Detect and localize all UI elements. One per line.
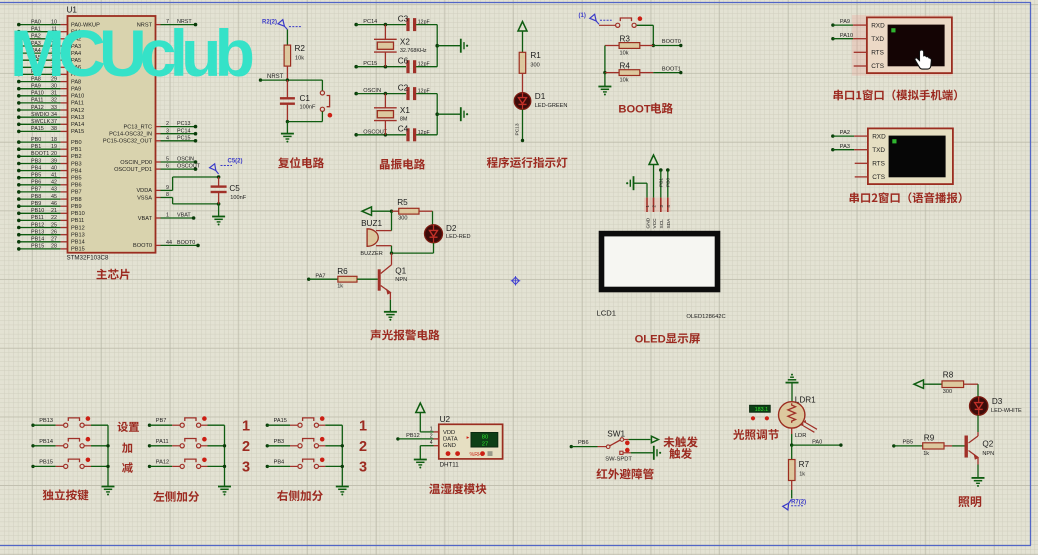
ground rail (右侧加分): [336, 425, 349, 495]
svg-text:BUZ1: BUZ1: [361, 219, 382, 228]
chip pin PB11 (22): [17, 215, 84, 224]
resistor R5: [392, 198, 433, 222]
VT1 pin TXD from PA10: [831, 33, 867, 41]
ground right of SW1: [654, 446, 661, 460]
label 温湿度模块: [429, 483, 486, 494]
svg-text:45: 45: [51, 194, 57, 200]
DHT11 pin 4 GND: [420, 440, 439, 459]
svg-text:PB4: PB4: [31, 165, 41, 171]
svg-text:VDDA: VDDA: [136, 188, 152, 194]
label 设置: [117, 422, 138, 432]
svg-text:BOOT1: BOOT1: [31, 151, 49, 157]
power arrow OLED VCC: [649, 155, 658, 198]
svg-text:21: 21: [51, 208, 57, 214]
chip U1 body: [67, 6, 156, 262]
svg-text:D3: D3: [992, 397, 1003, 406]
LED D3: [970, 397, 1023, 415]
chip pin OSCOUT_PD1 (6): [114, 164, 201, 173]
label 晶振电路: [380, 159, 425, 170]
svg-text:BOOT0: BOOT0: [662, 39, 681, 45]
svg-text:PA9: PA9: [840, 19, 850, 25]
reset button: [320, 80, 332, 122]
svg-text:PA10: PA10: [71, 94, 84, 100]
transistor Q2: [965, 432, 995, 464]
svg-text:BOOT0: BOOT0: [133, 243, 152, 249]
svg-text:183.1: 183.1: [755, 407, 769, 413]
wire SW1 top to arrow: [629, 439, 651, 441]
label 声光报警电路: [370, 329, 439, 340]
svg-text:PB2: PB2: [71, 154, 82, 160]
label 2 (left): [242, 439, 250, 455]
svg-text:PA7: PA7: [315, 273, 325, 279]
svg-text:8: 8: [166, 192, 169, 198]
chip pin VDDA (9): [136, 185, 172, 194]
svg-text:33: 33: [51, 105, 57, 111]
wire SW1 bottom to ground: [631, 452, 654, 454]
VT2 pin TXD from PA3: [831, 144, 868, 152]
chip pin PC14-OSC32_IN (3): [109, 128, 197, 137]
svg-text:1: 1: [359, 419, 367, 435]
svg-text:DHT11: DHT11: [440, 461, 460, 468]
label OLED显示屏: [635, 333, 700, 345]
svg-text:PB6: PB6: [578, 440, 589, 446]
chip pin PA8 (29): [17, 76, 81, 85]
chip pin SWDIO (34): [17, 112, 84, 121]
LCD1 OLED display body: [597, 234, 726, 321]
VT1 pin RTS stub: [854, 51, 867, 53]
label 1 (right): [359, 419, 367, 435]
origin marker: [511, 276, 521, 286]
chip pin PA4 (14): [17, 48, 81, 57]
svg-text:2: 2: [430, 433, 433, 439]
wire R8 to D3: [977, 384, 979, 397]
wire R1 to D1: [522, 73, 524, 93]
LED D2: [425, 224, 471, 243]
svg-text:32: 32: [51, 98, 57, 104]
svg-text:SWCLK: SWCLK: [31, 119, 51, 125]
svg-text:U1: U1: [67, 6, 78, 15]
svg-text:C6: C6: [398, 57, 409, 66]
net PA0: [792, 439, 843, 446]
wire button to R3 node: [652, 25, 655, 47]
svg-text:STM32F103C8: STM32F103C8: [67, 255, 110, 262]
svg-text:PB3: PB3: [274, 439, 285, 445]
svg-text:PB6: PB6: [71, 183, 82, 189]
svg-text:10k: 10k: [620, 78, 629, 84]
svg-text:PB1: PB1: [31, 144, 41, 150]
svg-text:LCD1: LCD1: [597, 309, 616, 318]
net PB0 (SDA): [666, 168, 672, 197]
label 1 (left): [242, 419, 250, 435]
chip pin PA3 (13): [17, 41, 81, 50]
label 2 (right): [359, 439, 367, 455]
svg-text:PA15: PA15: [71, 129, 84, 135]
label 照明: [958, 496, 981, 507]
svg-text:PB0: PB0: [71, 140, 82, 146]
svg-text:20: 20: [51, 151, 57, 157]
label 红外避障管: [596, 468, 653, 479]
svg-text:BUZZER: BUZZER: [360, 251, 382, 257]
svg-text:PC13_RTC: PC13_RTC: [124, 124, 153, 130]
chip pin PA9 (30): [17, 84, 81, 93]
chip pin PB6 (42): [17, 180, 82, 189]
wire buzzer bottom: [391, 246, 393, 253]
wire VDDA to C5 node: [173, 175, 221, 190]
svg-text:100nF: 100nF: [230, 195, 246, 201]
button PA12 (左侧加分): [148, 458, 225, 469]
wire D2 to node: [390, 243, 434, 255]
probe (1): [579, 13, 612, 24]
VT1 pin RXD from PA9: [831, 19, 867, 27]
svg-text:R5: R5: [397, 198, 408, 207]
OLED GND wire + ground: [626, 176, 647, 197]
svg-text:PB15: PB15: [39, 459, 53, 465]
svg-text:Q2: Q2: [982, 440, 993, 449]
resistor R9: [892, 434, 964, 457]
svg-text:OSCIN: OSCIN: [177, 157, 194, 163]
svg-text:18: 18: [51, 137, 57, 143]
label 右侧加分: [277, 490, 323, 501]
resistor R6: [307, 267, 378, 289]
ground DHT11: [414, 460, 427, 469]
transistor Q1: [378, 253, 407, 300]
svg-text:4: 4: [430, 440, 433, 446]
svg-text:PA2: PA2: [840, 130, 850, 136]
label 减: [122, 462, 133, 473]
svg-text:LDR: LDR: [795, 433, 807, 439]
svg-text:BOOT1: BOOT1: [662, 66, 681, 72]
svg-text:PB6: PB6: [31, 180, 41, 186]
svg-text:10k: 10k: [620, 51, 629, 57]
svg-text:SCL: SCL: [659, 219, 665, 229]
svg-text:PB14: PB14: [31, 237, 44, 243]
svg-text:PC14-OSC32_IN: PC14-OSC32_IN: [109, 132, 152, 138]
svg-text:PC13: PC13: [514, 123, 520, 135]
svg-text:OSCIN_PD0: OSCIN_PD0: [120, 160, 152, 166]
svg-text:PB7: PB7: [31, 187, 41, 193]
svg-text:39: 39: [51, 158, 57, 164]
chip pin PB3 (39): [17, 158, 82, 167]
svg-text:PB1: PB1: [659, 178, 665, 187]
svg-text:NPN: NPN: [395, 277, 407, 283]
svg-text:PB12: PB12: [71, 225, 85, 231]
button PB7 (左侧加分): [148, 416, 225, 427]
chip pin PB0 (18): [17, 137, 82, 146]
label 复位电路: [278, 157, 324, 168]
svg-text:1: 1: [242, 419, 250, 435]
svg-text:1k: 1k: [337, 283, 343, 289]
svg-text:3: 3: [359, 460, 367, 476]
chip pin PB10 (21): [17, 208, 85, 217]
svg-text:R1: R1: [530, 51, 541, 60]
svg-text:PB15: PB15: [71, 247, 85, 253]
svg-text:PB1: PB1: [71, 147, 82, 153]
svg-text:PA11: PA11: [71, 101, 84, 107]
ground rail (独立按键): [102, 425, 115, 495]
svg-text:6: 6: [166, 164, 169, 170]
svg-text:OLED: OLED: [635, 334, 666, 346]
label 串口1窗口（模拟手机端）: [834, 89, 958, 100]
node NRST: [259, 74, 323, 82]
svg-text:9: 9: [166, 185, 169, 191]
svg-text:C2: C2: [398, 83, 409, 92]
svg-text:LED-GREEN: LED-GREEN: [535, 103, 568, 109]
svg-text:GND: GND: [645, 217, 651, 228]
chip pin PB15 (28): [17, 244, 85, 253]
ground Q1: [384, 312, 397, 321]
svg-text:300: 300: [530, 63, 539, 69]
svg-text:R2(2): R2(2): [262, 20, 277, 26]
svg-text:NRST: NRST: [267, 74, 284, 80]
button PA15 (右侧加分): [266, 416, 343, 427]
svg-text:MCUclub: MCUclub: [10, 16, 255, 90]
probe C5(2): [210, 159, 243, 175]
chip pin PA7 (17): [17, 69, 81, 78]
svg-text:PA10: PA10: [31, 91, 44, 97]
svg-text:PB12: PB12: [406, 433, 420, 439]
ground reset: [281, 134, 294, 143]
label 程序运行指示灯: [487, 157, 568, 168]
svg-text:40: 40: [51, 165, 57, 171]
chip pin PB13 (26): [17, 230, 85, 239]
svg-text:R6: R6: [337, 267, 348, 276]
LDR1: [779, 396, 818, 440]
svg-text:19: 19: [51, 144, 57, 150]
svg-text:300: 300: [943, 389, 952, 395]
resistor R4: [605, 62, 653, 84]
power arrow DHT11: [416, 403, 425, 432]
svg-text:PA12: PA12: [156, 459, 169, 465]
svg-text:D1: D1: [535, 92, 546, 101]
wire Q1 emitter to ground: [389, 300, 391, 312]
svg-text:PB4: PB4: [71, 168, 82, 174]
buzzer BUZ1: [360, 219, 391, 257]
label BOOT电路: [618, 103, 673, 116]
net BOOT0: [653, 39, 682, 47]
wire buzzer top: [391, 211, 393, 230]
chip pin BOOT1 (20): [17, 151, 82, 160]
svg-text:PC13: PC13: [177, 121, 191, 127]
svg-text:PB4: PB4: [274, 459, 285, 465]
chip pin PA10 (31): [17, 91, 84, 100]
svg-text:LED-WHITE: LED-WHITE: [991, 408, 1022, 414]
svg-text:PB3: PB3: [31, 158, 41, 164]
svg-text:PB9: PB9: [31, 201, 41, 207]
svg-text:27: 27: [51, 237, 57, 243]
label 光照调节: [733, 429, 779, 440]
svg-text:8M: 8M: [400, 117, 408, 123]
chip pin SWCLK (37): [17, 119, 84, 128]
svg-text:PA11: PA11: [31, 98, 43, 104]
svg-text:2: 2: [166, 121, 169, 127]
svg-text:300: 300: [398, 216, 407, 222]
svg-text:1: 1: [166, 213, 169, 219]
svg-text:OLED128642C: OLED128642C: [686, 314, 725, 320]
svg-text:SDA: SDA: [666, 218, 672, 229]
resistor R8: [942, 371, 978, 395]
wire D1 to PC13: [514, 109, 524, 142]
button PB3 (右侧加分): [266, 437, 343, 448]
chip pin PA0 (10): [17, 19, 100, 28]
svg-text:37: 37: [51, 119, 57, 125]
svg-text:PB13: PB13: [71, 233, 85, 239]
svg-text:1: 1: [430, 426, 433, 432]
label 左侧加分: [153, 491, 199, 502]
svg-text:27: 27: [482, 441, 488, 447]
chip pin PB1 (19): [17, 144, 82, 153]
ground Q2: [972, 478, 985, 487]
ground above LDR: [786, 374, 799, 402]
label 串口2窗口（语音播报）: [850, 192, 962, 203]
svg-text:1k: 1k: [923, 451, 929, 457]
button PA11 (左侧加分): [148, 437, 225, 448]
svg-text:VBAT: VBAT: [138, 216, 153, 222]
svg-text:34: 34: [51, 112, 57, 118]
OLED pins GND VCC SCL SDA: [644, 198, 672, 229]
chip pin NRST (7): [137, 19, 198, 28]
chip pin PA15 (38): [17, 126, 84, 135]
svg-text:PB13: PB13: [39, 418, 53, 424]
svg-text:2: 2: [359, 439, 367, 455]
U2 DHT11 body: [439, 415, 503, 468]
svg-text:PB11: PB11: [31, 215, 44, 221]
button PB4 (右侧加分): [266, 458, 343, 469]
label 未触发: [663, 436, 697, 447]
svg-text:PB10: PB10: [71, 211, 85, 217]
svg-text:PB10: PB10: [31, 208, 44, 214]
crystal X2 group (PC14/PC15, C3, C6): [354, 14, 468, 73]
ground below C5: [212, 217, 225, 226]
svg-text:32.768KHz: 32.768KHz: [400, 48, 427, 54]
svg-text:CTS: CTS: [871, 63, 884, 70]
label 触发: [669, 448, 692, 459]
terminal VT2 body: [868, 128, 953, 184]
LED D1: [514, 92, 567, 109]
wire R5 to D2: [432, 211, 434, 225]
power arrow R8: [914, 380, 942, 389]
svg-text:VBAT: VBAT: [177, 213, 191, 219]
button PB14 (独立按键): [31, 437, 108, 448]
svg-text:BOOT: BOOT: [618, 104, 650, 116]
resistor R7: [789, 445, 810, 498]
svg-text:VSSA: VSSA: [137, 195, 152, 201]
chip pin PC15-OSC32_OUT (4): [103, 135, 197, 144]
svg-text:TXD: TXD: [872, 147, 885, 154]
svg-text:RTS: RTS: [871, 50, 884, 57]
svg-text:R7: R7: [799, 460, 810, 469]
svg-text:PA13: PA13: [71, 115, 84, 121]
label 3 (left): [242, 460, 250, 476]
svg-text:PA10: PA10: [840, 33, 853, 39]
svg-text:X2: X2: [400, 38, 410, 47]
wire R4 node to ground: [604, 73, 606, 87]
wire C5 to ground: [218, 204, 220, 217]
svg-text:C5(2): C5(2): [228, 159, 243, 165]
switch SW1: [570, 430, 633, 463]
svg-text:43: 43: [51, 187, 57, 193]
wire C1 to button: [286, 120, 323, 123]
DHT11 pin 1 VDD: [420, 426, 439, 432]
svg-text:(1): (1): [579, 13, 586, 19]
VT1 pin CTS stub: [854, 65, 867, 67]
capacitor C1: [280, 80, 316, 122]
svg-text:Q1: Q1: [395, 267, 406, 276]
resistor R1: [519, 51, 541, 73]
VT2 pin CTS stub: [855, 176, 868, 178]
DHT11 pin 2 DATA PB12: [396, 433, 439, 441]
svg-text:PA12: PA12: [31, 105, 44, 111]
resistor R2: [284, 30, 305, 81]
capacitor C5: [211, 177, 247, 204]
svg-text:PC15: PC15: [177, 135, 191, 141]
chip pin PA12 (33): [17, 105, 84, 114]
chip pin OSCIN_PD0 (5): [120, 157, 197, 166]
label 3 (right): [359, 460, 367, 476]
svg-text:VCC: VCC: [652, 218, 658, 229]
chip pin PA11 (32): [17, 98, 84, 107]
terminal VT1 body: [852, 15, 953, 76]
VT2 pin RTS stub: [855, 162, 868, 164]
svg-text:PB13: PB13: [31, 230, 44, 236]
svg-text:VDD: VDD: [443, 430, 455, 436]
power arrow right (未触发): [651, 436, 658, 443]
svg-text:D2: D2: [446, 224, 457, 233]
svg-text:OSCOUT_PD1: OSCOUT_PD1: [114, 167, 152, 173]
svg-text:PA11: PA11: [156, 439, 169, 445]
VT2 pin RXD from PA2: [831, 130, 868, 138]
svg-text:10k: 10k: [295, 55, 304, 61]
svg-text:SWDIO: SWDIO: [31, 112, 49, 118]
svg-text:5: 5: [166, 157, 169, 163]
chip pin PC13_RTC (2): [124, 121, 198, 130]
svg-text:PB3: PB3: [71, 161, 82, 167]
svg-text:R9: R9: [924, 434, 935, 443]
svg-text:PB5: PB5: [71, 176, 82, 182]
svg-text:PB15: PB15: [31, 244, 44, 250]
svg-text:3: 3: [166, 128, 169, 134]
svg-text:38: 38: [51, 126, 57, 132]
chip pin PB5 (41): [17, 173, 82, 182]
svg-text:41: 41: [51, 173, 57, 179]
chip pin PB4 (40): [17, 165, 82, 174]
net BOOT1: [653, 66, 682, 74]
svg-text:PA3: PA3: [840, 144, 850, 150]
svg-text:3: 3: [242, 460, 250, 476]
wire to ground: [286, 122, 288, 134]
svg-text:R3: R3: [620, 35, 631, 44]
svg-text:PB7: PB7: [156, 418, 167, 424]
svg-text:R7(2): R7(2): [791, 500, 806, 506]
chip pin VSSA (8): [137, 192, 173, 201]
svg-text:PB5: PB5: [903, 439, 914, 445]
svg-text:PB11: PB11: [71, 218, 84, 224]
watermark MCUclub: [10, 16, 255, 90]
chip pin PA5 (15): [17, 55, 81, 64]
chip pin PB8 (45): [17, 194, 82, 203]
svg-text:PA15: PA15: [31, 126, 44, 132]
probe R2(2): [262, 20, 301, 30]
svg-text:R2: R2: [295, 44, 306, 53]
chip pin BOOT0 (44): [133, 240, 200, 249]
svg-text:RTS: RTS: [872, 161, 885, 168]
svg-text:80: 80: [482, 435, 488, 441]
svg-text:4: 4: [166, 135, 169, 141]
svg-text:PB5: PB5: [31, 173, 41, 179]
wire R3 to R4: [603, 46, 606, 75]
svg-text:46: 46: [51, 201, 57, 207]
svg-text:TXD: TXD: [871, 36, 884, 43]
chip pin PA6 (16): [17, 62, 81, 71]
